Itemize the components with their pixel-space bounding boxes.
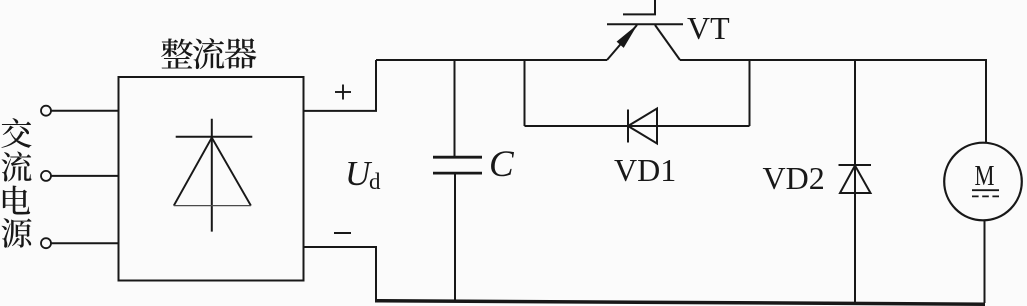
svg-text:VT: VT <box>687 10 730 46</box>
svg-text:VD1: VD1 <box>614 152 676 188</box>
svg-text:d: d <box>369 169 381 194</box>
svg-text:VD2: VD2 <box>763 160 825 196</box>
svg-text:M: M <box>975 160 995 192</box>
svg-text:C: C <box>489 144 515 185</box>
